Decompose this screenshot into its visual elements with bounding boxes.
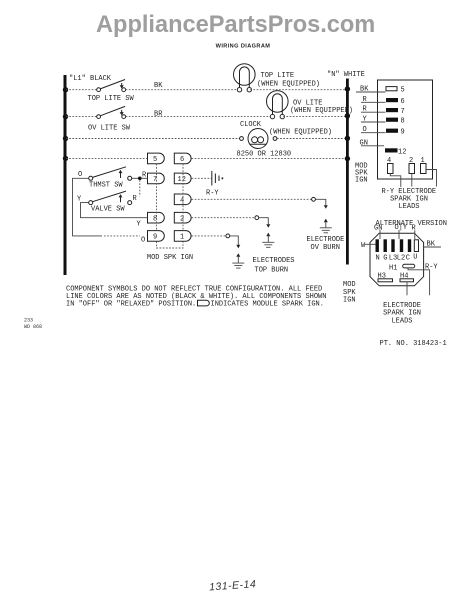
svg-text:9: 9 — [401, 129, 405, 137]
svg-text:6: 6 — [401, 98, 405, 106]
svg-text:U: U — [413, 253, 417, 261]
svg-text:2: 2 — [180, 215, 184, 223]
svg-text:R-Y: R-Y — [206, 190, 219, 198]
svg-text:SPARK IGN: SPARK IGN — [383, 310, 421, 318]
svg-text:12: 12 — [178, 176, 186, 184]
svg-text:(WHEN EQUIPPED): (WHEN EQUIPPED) — [269, 129, 332, 137]
svg-text:"L1" BLACK: "L1" BLACK — [69, 75, 112, 83]
svg-text:H1: H1 — [389, 264, 397, 272]
svg-text:OV LITE SW: OV LITE SW — [88, 125, 131, 133]
svg-text:7: 7 — [401, 108, 405, 116]
svg-text:ELECTRODE: ELECTRODE — [307, 236, 345, 244]
svg-text:OV BURN: OV BURN — [311, 244, 340, 252]
svg-text:WIRING DIAGRAM: WIRING DIAGRAM — [216, 44, 271, 50]
svg-text:BK: BK — [154, 82, 163, 90]
svg-text:1: 1 — [180, 234, 184, 242]
svg-text:BK: BK — [360, 86, 369, 94]
svg-text:TOP LITE SW: TOP LITE SW — [88, 95, 135, 103]
svg-text:(WHEN EQUIPPED): (WHEN EQUIPPED) — [257, 81, 320, 89]
svg-text:GN: GN — [374, 225, 382, 233]
svg-text:GN: GN — [360, 139, 368, 147]
svg-text:(WHEN EQUIPPED): (WHEN EQUIPPED) — [290, 107, 353, 115]
svg-text:5: 5 — [153, 156, 157, 164]
svg-text:WD 868: WD 868 — [24, 324, 42, 330]
svg-text:12: 12 — [398, 148, 406, 156]
svg-text:MOD SPK IGN: MOD SPK IGN — [147, 254, 193, 262]
svg-text:8: 8 — [401, 118, 405, 126]
svg-text:IN "OFF" OR "RELAXED" POSITION: IN "OFF" OR "RELAXED" POSITION. — [66, 301, 196, 309]
svg-text:IGN: IGN — [343, 297, 356, 305]
svg-text:9: 9 — [153, 234, 157, 242]
svg-text:8250 OR 12830: 8250 OR 12830 — [237, 151, 292, 159]
svg-text:VALVE SW: VALVE SW — [91, 206, 125, 214]
svg-text:TOP LITE: TOP LITE — [261, 72, 295, 80]
svg-text:O|Y: O|Y — [395, 224, 408, 232]
svg-text:R: R — [133, 195, 138, 203]
svg-text:IGN: IGN — [355, 177, 368, 185]
svg-text:O: O — [78, 171, 82, 179]
svg-text:MOD: MOD — [343, 281, 356, 289]
svg-text:LEADS: LEADS — [391, 317, 412, 325]
svg-text:AppliancePartsPros.com: AppliancePartsPros.com — [96, 12, 375, 38]
svg-text:L2: L2 — [397, 255, 405, 263]
svg-text:O: O — [141, 237, 145, 245]
svg-text:131-E-14: 131-E-14 — [209, 578, 257, 593]
svg-text:SPK: SPK — [343, 289, 356, 297]
svg-text:Y: Y — [137, 221, 142, 229]
svg-text:CLOCK: CLOCK — [240, 121, 262, 129]
svg-text:R-Y: R-Y — [425, 263, 438, 271]
svg-text:G: G — [383, 255, 387, 263]
svg-text:4: 4 — [180, 197, 184, 205]
svg-text:TOP BURN: TOP BURN — [255, 267, 289, 275]
svg-text:THMST SW: THMST SW — [89, 182, 123, 190]
svg-text:5: 5 — [401, 87, 405, 95]
svg-text:C: C — [406, 255, 410, 263]
svg-text:O: O — [363, 126, 367, 134]
svg-text:"N" WHITE: "N" WHITE — [327, 71, 365, 79]
svg-text:W: W — [361, 242, 366, 250]
svg-text:BR: BR — [154, 110, 163, 118]
svg-text:N: N — [376, 255, 380, 263]
svg-text:INDICATES MODULE SPARK IGN.: INDICATES MODULE SPARK IGN. — [211, 301, 324, 309]
svg-text:ELECTRODES: ELECTRODES — [253, 257, 295, 265]
svg-text:233: 233 — [24, 318, 33, 324]
svg-text:PT. NO. 318423-1: PT. NO. 318423-1 — [380, 340, 447, 348]
svg-text:6: 6 — [180, 156, 184, 164]
svg-text:LEADS: LEADS — [398, 203, 419, 211]
